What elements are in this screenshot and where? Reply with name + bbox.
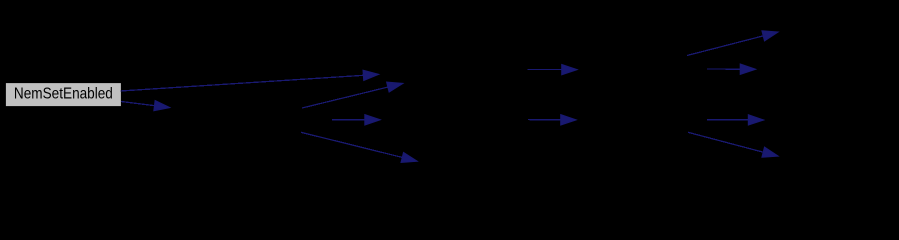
edge column5 horizontal lower [707,115,764,125]
edge column4 horizontal upper [528,64,578,74]
edge column5 horizontal upper [707,64,756,74]
edge middle node down-right [301,132,417,162]
edge column4 horizontal lower [528,115,576,125]
svg-text:NemSetEnabled: NemSetEnabled [14,86,113,103]
edge NemSetEnabled to upper-middle node [121,70,379,91]
edge middle node up-right [302,82,403,108]
edge middle node horizontal [332,115,380,125]
edge column5 up-right [687,31,778,56]
edge NemSetEnabled to near node [121,101,170,111]
node NemSetEnabled [5,83,121,107]
edge column5 down-right [688,132,778,157]
